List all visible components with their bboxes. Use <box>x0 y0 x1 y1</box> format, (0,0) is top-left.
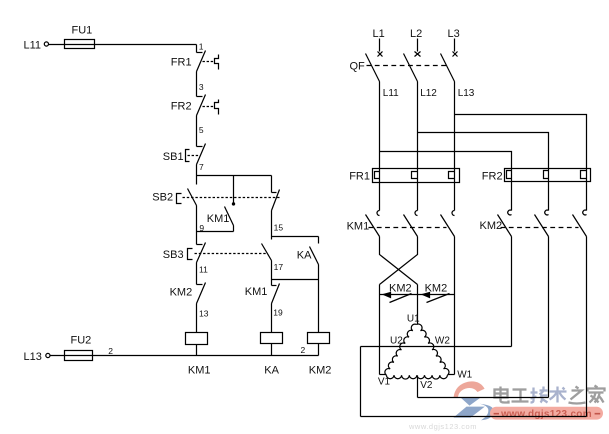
svg-text:2: 2 <box>108 346 113 356</box>
svg-text:KM2: KM2 <box>309 365 332 377</box>
svg-text:FU1: FU1 <box>72 25 93 37</box>
svg-text:L12: L12 <box>420 88 437 99</box>
svg-text:FR2: FR2 <box>171 100 192 112</box>
node line 17 junction <box>272 279 319 281</box>
wire tap L13 to KM2 side <box>455 115 587 169</box>
svg-text:KM2: KM2 <box>425 283 448 295</box>
wire phase swap cross (reversing) <box>380 237 418 285</box>
svg-text:5: 5 <box>199 125 204 135</box>
svg-text:V2: V2 <box>420 380 433 391</box>
svg-text:KM1: KM1 <box>207 213 230 225</box>
node line 9 junction <box>197 231 234 233</box>
watermark red url banner <box>490 407 603 420</box>
thermal relay FR1 heater block <box>349 169 459 183</box>
svg-text:QF: QF <box>350 61 366 73</box>
svg-text:7: 7 <box>199 162 204 172</box>
circuit breaker QF (3-pole) <box>350 54 455 82</box>
svg-text:U1: U1 <box>407 314 420 325</box>
coil KA <box>261 333 283 377</box>
svg-text:17: 17 <box>274 262 284 272</box>
thermal relay FR2 heater block <box>482 169 591 183</box>
node line top of start branches <box>197 175 272 177</box>
svg-text:FU2: FU2 <box>71 335 92 347</box>
svg-text:KA: KA <box>297 250 312 262</box>
contactor KM2 main contacts (3-pole) <box>480 182 587 237</box>
coil KM1 <box>186 333 211 377</box>
wire - to coil KA <box>271 304 273 333</box>
wire tap L12 to KM2 side <box>418 133 549 169</box>
pushbutton SB2 NC contact (in KA/KM2 branch) <box>272 176 280 211</box>
watermark logo (dgjs123 swirl) <box>453 381 494 420</box>
svg-text:L2: L2 <box>410 28 422 40</box>
svg-text:2: 2 <box>300 345 305 355</box>
wire - to node 17 <box>271 261 273 280</box>
svg-text:KM1: KM1 <box>347 220 370 232</box>
phase terminal L2 <box>410 28 422 57</box>
wire L11 phase drop <box>379 82 381 169</box>
svg-text:L13: L13 <box>458 88 475 99</box>
wire - to node 15 <box>271 211 273 237</box>
contact KM2 interlock (NC, in KM1 branch) <box>170 283 206 304</box>
terminal L11 <box>24 39 49 51</box>
svg-text:W2: W2 <box>435 336 450 347</box>
svg-text:FR1: FR1 <box>349 171 370 183</box>
watermark text dian-gong-ji-shu-zhi-jia (simplified glyph strokes) <box>495 387 529 403</box>
svg-text:FR1: FR1 <box>171 56 192 68</box>
svg-text:19: 19 <box>273 308 283 318</box>
svg-text:KM1: KM1 <box>245 286 268 298</box>
wire pole3 KM1 down to W1 <box>454 237 456 375</box>
contact KM1 (NC interlock in KA branch) <box>245 280 280 304</box>
svg-text:KA: KA <box>264 365 279 377</box>
wire pole2 down to U1 <box>417 285 419 325</box>
svg-text:SB3: SB3 <box>163 249 184 261</box>
coil KM2 <box>300 333 331 377</box>
svg-text:FR2: FR2 <box>482 171 503 183</box>
contact KM1 self-latch (NO) <box>207 176 235 232</box>
wire - L11 drop to FR1 <box>196 45 198 53</box>
svg-text:www.dgjs123.com: www.dgjs123.com <box>408 422 477 431</box>
wire - SB3 to KM2 interlock <box>196 263 198 285</box>
contactor KM1 main contacts (3-pole) <box>347 183 455 237</box>
fuse FU1 <box>49 25 197 49</box>
pushbutton SB3 NO contact (in KA branch) <box>262 237 272 261</box>
svg-text:3: 3 <box>199 82 204 92</box>
svg-text:L13: L13 <box>24 351 42 363</box>
wire - SB2 to node 9 <box>196 206 198 232</box>
svg-text:W1: W1 <box>457 369 472 380</box>
phase terminal L3 <box>448 28 460 57</box>
svg-text:KM2: KM2 <box>480 220 503 232</box>
wire - KM2 interlock to coil KM1 <box>196 304 198 333</box>
svg-text:SB2: SB2 <box>152 192 173 204</box>
pushbutton SB2 NO contact (start KM1) <box>152 176 280 206</box>
wire V1 stub <box>380 374 387 376</box>
wire KM2 pole2 down to V2 line <box>548 237 550 398</box>
motor delta winding <box>378 314 473 392</box>
wire W1 stub <box>448 374 455 376</box>
contact KA (NO) <box>297 237 319 265</box>
fuse FU2 <box>65 335 93 361</box>
svg-text:15: 15 <box>274 222 284 232</box>
wire left return down <box>360 347 362 417</box>
wire pole1 down to V1 <box>379 285 381 375</box>
wire V2 to KM2 pole2 <box>418 397 549 399</box>
svg-text:13: 13 <box>199 309 209 319</box>
svg-text:KM2: KM2 <box>170 286 193 298</box>
svg-text:KM1: KM1 <box>188 365 211 377</box>
pushbutton SB1 (NC stop) <box>163 144 206 165</box>
contact KM2 shorting link (2 horizontal NC contacts) <box>380 283 455 303</box>
svg-text:www.dgjs123.com: www.dgjs123.com <box>500 409 592 420</box>
svg-text:SB1: SB1 <box>163 151 184 163</box>
svg-text:KM2: KM2 <box>389 283 412 295</box>
phase terminal L1 <box>373 28 385 57</box>
svg-text:U2: U2 <box>390 336 403 347</box>
svg-text:L3: L3 <box>448 28 460 40</box>
svg-text:L1: L1 <box>373 28 385 40</box>
wire KM2 pole3 down to bottom return <box>586 237 588 417</box>
wire U2-W2 line to KM2 pole1 <box>361 346 512 348</box>
wire KM2 pole1 down to U2/W2 line <box>511 237 513 347</box>
wire bottom return to KM2 pole3 <box>361 416 587 418</box>
svg-text:11: 11 <box>199 265 208 275</box>
svg-text:L11: L11 <box>383 88 399 99</box>
svg-text:V1: V1 <box>378 376 391 387</box>
terminal L13 <box>24 351 51 363</box>
thermal relay contact FR2 (NC) <box>171 95 219 116</box>
wire - FR1 to FR2 <box>196 72 198 97</box>
wire V2 drop <box>417 376 419 398</box>
wire - SB1 to node 7 <box>196 165 198 176</box>
svg-text:L11: L11 <box>24 39 42 51</box>
thermal relay contact FR1 (NC) <box>171 51 219 72</box>
wire tap L11 to KM2 side <box>380 152 512 169</box>
wire - KA contact to coil KM2 <box>318 265 320 333</box>
wire L12 phase drop <box>417 82 419 169</box>
wire L13 phase drop <box>454 82 456 169</box>
node line 15 to KA branch <box>272 236 319 238</box>
svg-text:1: 1 <box>199 42 204 52</box>
wire - FR2 to SB1 <box>196 116 198 147</box>
bottom rail L13 <box>51 355 319 357</box>
pushbutton SB3 NC contact (in KM1 branch) <box>163 232 267 263</box>
